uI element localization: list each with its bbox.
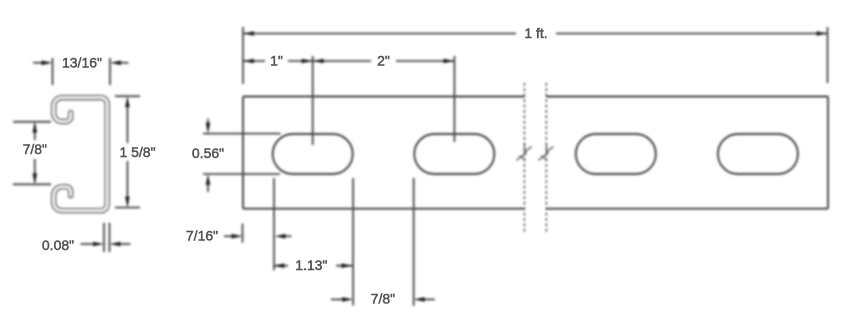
svg-text:1": 1" [270, 52, 283, 68]
svg-text:7/8": 7/8" [23, 141, 47, 157]
svg-text:7/16": 7/16" [186, 228, 218, 244]
svg-text:0.08": 0.08" [42, 237, 74, 253]
svg-text:0.56": 0.56" [192, 145, 224, 161]
svg-text:7/8": 7/8" [371, 291, 395, 307]
svg-text:1 5/8": 1 5/8" [119, 144, 155, 160]
svg-text:1.13": 1.13" [295, 257, 327, 273]
svg-text:1 ft.: 1 ft. [524, 25, 547, 41]
svg-text:13/16": 13/16" [62, 54, 102, 70]
svg-text:2": 2" [377, 53, 390, 69]
